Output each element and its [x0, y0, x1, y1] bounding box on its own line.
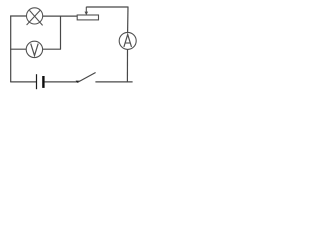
wire switch to bottom-right — [95, 81, 132, 83]
ammeter A1 — [119, 32, 136, 49]
wire slider to top-right corner — [86, 6, 128, 8]
wire battery to switch — [45, 81, 78, 83]
rheostat R1 — [77, 7, 98, 20]
battery cell: long thin plate — [36, 74, 38, 89]
battery cell: short thick plate — [42, 76, 44, 88]
wire left vertical — [10, 16, 12, 83]
switch S1 pivot contact — [76, 81, 80, 83]
wire left to voltmeter — [10, 48, 26, 50]
wire bottom-left to battery — [10, 81, 36, 83]
voltmeter V — [26, 41, 42, 57]
wire right vertical upper — [127, 7, 129, 33]
switch S1 blade — [77, 73, 95, 83]
wire right vertical lower — [126, 49, 128, 82]
wire lamp to rheostat — [43, 15, 77, 17]
wire voltmeter to junction — [43, 48, 61, 50]
node right junction vertical — [60, 16, 62, 49]
wire top-left to lamp — [10, 15, 27, 17]
lamp L1 — [26, 8, 42, 26]
